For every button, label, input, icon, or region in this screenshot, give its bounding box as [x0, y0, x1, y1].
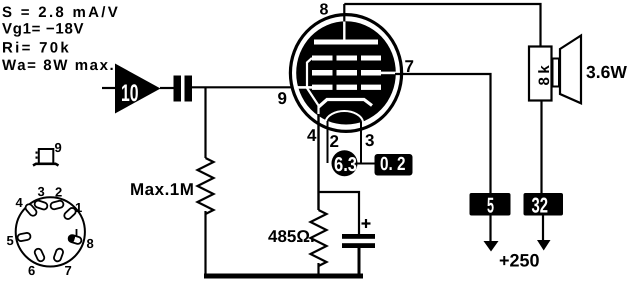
loudspeaker cone: [560, 36, 581, 104]
socket pin 2 oval: [50, 200, 64, 210]
wire triangle to coupling capacitor: [160, 87, 174, 89]
anode current box 32: [524, 193, 564, 216]
socket pin 7 oval: [53, 248, 64, 263]
socket pin 8 oval: [68, 234, 82, 244]
coupling capacitor C1: [174, 76, 182, 102]
input amplifier triangle "10": [115, 64, 161, 114]
svg-text:6: 6: [28, 263, 35, 278]
g3 internal lead to cathode: [307, 58, 319, 106]
loudspeaker driver: [553, 59, 560, 87]
resistor R2 485 ohm cathode: [311, 210, 327, 266]
plus polarity mark: [362, 222, 371, 224]
wire cathode junction to bypass capacitor: [319, 192, 360, 235]
envelope outline symbol with label 9: [39, 149, 54, 164]
resistor R1 Max.1M grid leak: [198, 158, 214, 214]
wire screen pin 7 to right: [395, 74, 491, 194]
svg-text:Wa= 8W max.: Wa= 8W max.: [2, 57, 115, 74]
g2 white lead to pin 7: [381, 72, 396, 75]
grid g3 dashes row: [312, 56, 381, 61]
svg-text:Ri= 70k: Ri= 70k: [2, 40, 71, 57]
bypass capacitor C2 electrolytic plates: [342, 234, 375, 239]
socket pin 5 oval: [17, 232, 31, 241]
wire anode pin8 top rail to output transformer: [344, 4, 540, 47]
wire heater pin 2 down: [327, 121, 329, 163]
svg-text:3: 3: [365, 131, 374, 150]
screen current box 5: [470, 193, 511, 216]
wire below 32 box with arrow to +250: [542, 216, 544, 242]
svg-text:S = 2.8 mA/V: S = 2.8 mA/V: [2, 4, 120, 21]
g1 white lead to pin 9: [297, 86, 313, 89]
svg-text:+250: +250: [499, 251, 540, 271]
svg-text:8: 8: [87, 236, 94, 251]
svg-text:5: 5: [7, 233, 14, 248]
wire grid resistor to ground rail: [204, 211, 206, 276]
wire cathode pin 4 down: [317, 114, 319, 210]
socket pin 3 oval: [34, 200, 49, 211]
cathode bracket: [319, 100, 373, 108]
wire input stub: [102, 87, 116, 89]
svg-text:9: 9: [55, 140, 62, 155]
pentode tube U1 envelope: [290, 15, 401, 132]
wire cathode resistor to ground rail: [317, 263, 319, 276]
svg-text:4: 4: [307, 126, 317, 145]
anode plate bar: [314, 40, 378, 45]
svg-text:485Ω.: 485Ω.: [268, 227, 315, 246]
svg-text:Vg1= −18V: Vg1= −18V: [2, 21, 84, 38]
wire grid line capacitor to tube grid pin 9: [192, 86, 298, 88]
heater filament arc: [326, 111, 364, 121]
ground rail thick line: [204, 274, 363, 279]
wire below 5 box with arrow to +250: [489, 216, 491, 243]
svg-text:3.6W: 3.6W: [586, 62, 627, 82]
socket pin 4 oval: [24, 203, 38, 217]
wire 6.3 circle to 0.2 box: [356, 163, 375, 165]
svg-text:10: 10: [121, 80, 139, 107]
svg-text:7: 7: [65, 263, 72, 278]
heater current box 0.2: [375, 154, 413, 176]
svg-text:5: 5: [487, 194, 494, 218]
svg-text:9: 9: [278, 89, 287, 108]
grid g1 control dashes row: [312, 85, 381, 90]
wire grid junction down to grid resistor: [204, 87, 206, 158]
socket pin 1 oval: [63, 207, 77, 221]
wire transformer down to 32 box: [540, 100, 542, 194]
svg-text:32: 32: [532, 194, 549, 218]
svg-text:8k: 8k: [536, 62, 553, 86]
output transformer load box 8k: [529, 47, 552, 101]
svg-text:4: 4: [16, 195, 24, 210]
svg-text:1: 1: [75, 200, 82, 215]
svg-text:2: 2: [55, 185, 62, 200]
heater voltage circle 6.3: [332, 150, 358, 176]
svg-text:Max.1M: Max.1M: [130, 180, 194, 199]
grid g2 screen dashes row: [312, 70, 381, 76]
wire heater pin 3 down: [360, 122, 362, 164]
socket index wedge pin8 filled end: [68, 234, 76, 242]
wire bypass capacitor to ground rail: [358, 248, 361, 276]
socket pin 6 oval: [34, 248, 46, 263]
svg-text:6.3: 6.3: [334, 154, 357, 176]
pentode tube inner disc: [296, 21, 396, 124]
svg-text:3: 3: [38, 184, 45, 199]
anode lead white inside: [343, 22, 345, 41]
socket base diagram circle: [16, 197, 85, 266]
cathode white lead down pin 4: [317, 106, 319, 116]
svg-text:2: 2: [330, 132, 339, 151]
svg-text:8: 8: [320, 2, 329, 19]
svg-text:0. 2: 0. 2: [380, 154, 406, 175]
pin 8 anode top wire: [343, 4, 345, 25]
